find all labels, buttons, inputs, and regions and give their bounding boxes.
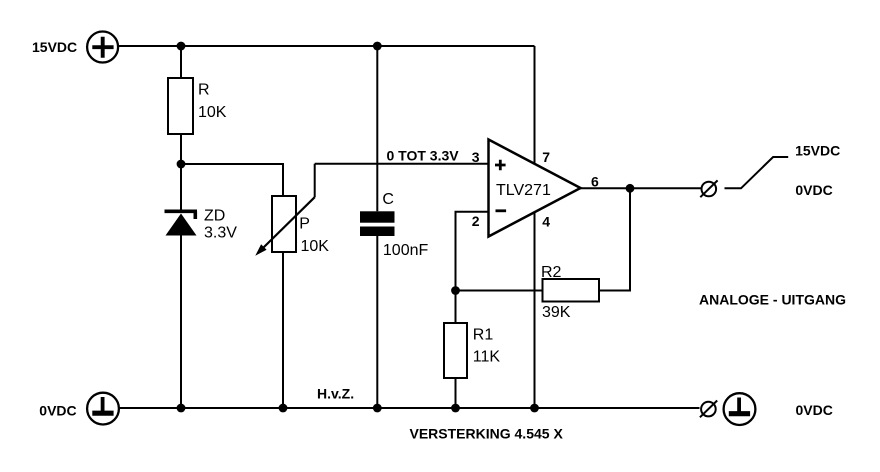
svg-text:R: R	[198, 82, 210, 99]
svg-text:VERSTERKING 4.545 X: VERSTERKING 4.545 X	[410, 426, 564, 442]
svg-text:0VDC: 0VDC	[39, 402, 76, 418]
wire ground rail 0VDC	[119, 407, 700, 409]
junction node rail/pin4	[530, 404, 539, 413]
capacitor C	[360, 211, 395, 236]
voltage source +15V	[87, 32, 118, 63]
svg-text:39K: 39K	[542, 304, 571, 321]
svg-text:0 TOT 3.3V: 0 TOT 3.3V	[387, 148, 460, 164]
wire pin 7 supply	[534, 46, 536, 164]
wire wiper to op-amp pin 3	[315, 164, 489, 197]
svg-text:H.v.Z.: H.v.Z.	[317, 386, 354, 402]
wire R top lead	[180, 46, 182, 78]
op-amp plus input marking	[495, 160, 506, 171]
junction node rail/ZD	[177, 404, 186, 413]
resistor R1	[444, 323, 467, 378]
wire pin 2 inverting input	[456, 212, 489, 291]
junction node output	[626, 184, 635, 193]
svg-text:2: 2	[472, 213, 480, 229]
wire top rail 15V	[118, 45, 534, 47]
svg-text:R2: R2	[541, 264, 562, 281]
junction node rail/R1	[451, 404, 460, 413]
svg-text:4: 4	[542, 214, 550, 230]
op-amp U1 TLV271 body	[489, 140, 581, 237]
wire ZD bottom lead	[180, 235, 182, 408]
junction node rail/C	[373, 404, 382, 413]
potentiometer P body	[272, 196, 296, 252]
wire C bottom lead	[376, 236, 378, 408]
resistor R2	[543, 279, 600, 302]
svg-text:R1: R1	[473, 327, 494, 344]
ground symbol right	[724, 393, 756, 425]
svg-text:3.3V: 3.3V	[204, 224, 237, 241]
wire R2 to output	[599, 188, 630, 290]
svg-text:ZD: ZD	[204, 207, 225, 224]
connector output (slashed circle)	[700, 180, 717, 197]
svg-text:0VDC: 0VDC	[796, 402, 833, 418]
junction node R/ZD	[177, 160, 186, 169]
svg-text:P: P	[299, 216, 310, 233]
svg-text:6: 6	[591, 173, 599, 189]
wire R1 bottom lead	[455, 378, 457, 408]
junction node feedback	[451, 286, 460, 295]
svg-text:ANALOGE - UITGANG: ANALOGE - UITGANG	[699, 292, 846, 308]
svg-text:0VDC: 0VDC	[795, 182, 832, 198]
svg-text:10K: 10K	[301, 238, 330, 255]
wire R1 top lead	[455, 291, 457, 324]
ground symbol left	[87, 393, 119, 425]
svg-text:7: 7	[542, 149, 550, 165]
zener diode ZD	[165, 211, 198, 235]
wire R bottom lead	[180, 134, 182, 164]
wire P bottom lead	[282, 252, 284, 408]
svg-text:11K: 11K	[473, 349, 501, 366]
svg-text:C: C	[382, 191, 394, 208]
switch blade to 15VDC	[725, 157, 789, 188]
svg-text:3: 3	[472, 149, 480, 165]
potentiometer wiper arrow	[255, 197, 314, 256]
junction node rail/P	[279, 404, 288, 413]
svg-text:10K: 10K	[198, 104, 227, 121]
wire ZD top lead	[180, 164, 182, 210]
junction node top rail / R	[177, 42, 186, 51]
svg-text:15VDC: 15VDC	[795, 142, 840, 158]
wire op-amp output pin 6	[581, 187, 702, 189]
resistor R	[168, 78, 193, 134]
wire node to potentiometer top	[181, 164, 283, 196]
wire pin 4 to ground rail	[534, 212, 536, 408]
svg-text:100nF: 100nF	[383, 242, 429, 259]
svg-text:TLV271: TLV271	[496, 182, 551, 199]
connector ground (slashed circle)	[700, 401, 717, 418]
svg-text:15VDC: 15VDC	[32, 39, 77, 55]
wire C top lead from rail	[376, 46, 378, 211]
wire feedback node to R2	[456, 290, 543, 292]
op-amp minus input marking	[496, 209, 507, 212]
junction node top rail / C	[373, 42, 382, 51]
